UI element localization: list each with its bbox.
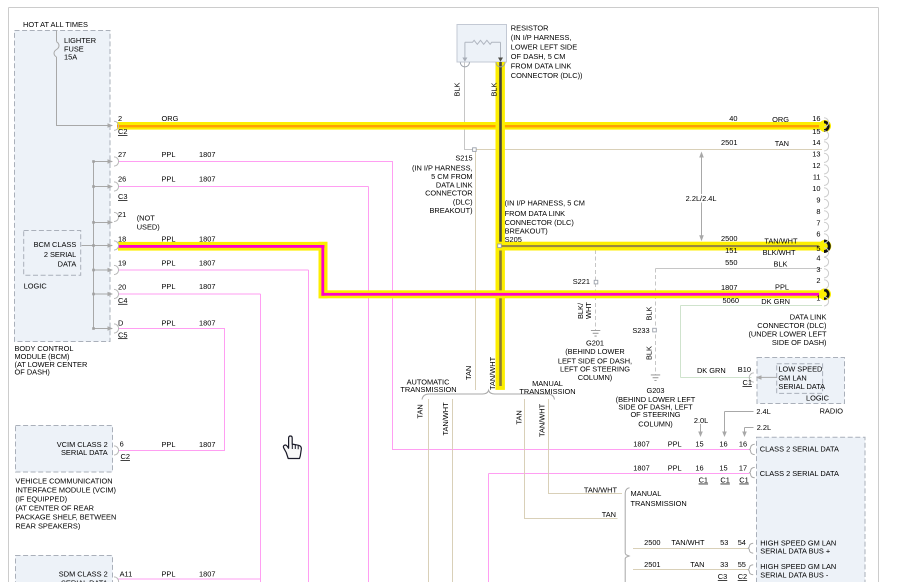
svg-text:PPL: PPL [162,570,176,579]
svg-text:54: 54 [738,538,746,547]
svg-text:1807: 1807 [199,318,215,327]
svg-text:D: D [118,318,123,327]
svg-text:FROM DATA LINK: FROM DATA LINK [505,209,566,218]
svg-text:20: 20 [118,283,126,292]
svg-text:1807: 1807 [199,259,215,268]
svg-text:16: 16 [719,439,727,448]
svg-text:(IF EQUIPPED): (IF EQUIPPED) [15,494,67,503]
svg-text:BLK: BLK [645,306,654,320]
svg-text:PPL: PPL [162,282,176,291]
svg-text:BLK: BLK [645,346,654,360]
svg-text:2500: 2500 [644,538,660,547]
svg-text:SERIAL DATA BUS +: SERIAL DATA BUS + [760,547,830,556]
svg-text:15A: 15A [64,52,77,61]
svg-text:1807: 1807 [199,234,215,243]
svg-text:PPL: PPL [162,174,176,183]
svg-text:33: 33 [720,560,728,569]
svg-text:TAN: TAN [775,139,789,148]
svg-text:12: 12 [812,161,820,170]
svg-text:5060: 5060 [723,296,739,305]
svg-text:2500: 2500 [721,234,737,243]
svg-text:(AT CENTER OF REAR: (AT CENTER OF REAR [15,503,94,512]
svg-text:SERIAL DATA BUS -: SERIAL DATA BUS - [760,570,829,579]
svg-text:(BEHIND LOWER: (BEHIND LOWER [565,347,625,356]
svg-text:COLUMN): COLUMN) [638,420,673,429]
svg-text:1807: 1807 [199,150,215,159]
svg-text:2.2L/2.4L: 2.2L/2.4L [686,194,717,203]
svg-text:C4: C4 [118,296,127,305]
svg-text:SIDE OF DASH): SIDE OF DASH) [772,338,827,347]
svg-text:1: 1 [816,294,820,303]
svg-text:2501: 2501 [644,560,660,569]
svg-text:(IN I/P HARNESS, 5 CM: (IN I/P HARNESS, 5 CM [505,199,585,208]
svg-text:RESISTOR: RESISTOR [511,23,549,32]
svg-text:TAN: TAN [416,404,425,418]
svg-text:PPL: PPL [162,234,176,243]
svg-text:DK GRN: DK GRN [761,297,790,306]
svg-text:1807: 1807 [199,282,215,291]
svg-text:TRANSMISSION: TRANSMISSION [631,499,687,508]
svg-text:17: 17 [739,463,747,472]
svg-text:PPL: PPL [668,439,682,448]
svg-text:7: 7 [816,219,820,228]
svg-text:15: 15 [695,439,703,448]
svg-text:S215: S215 [455,154,472,163]
svg-text:8: 8 [816,207,820,216]
svg-text:10: 10 [812,184,820,193]
svg-text:26: 26 [118,174,126,183]
svg-text:40: 40 [729,114,737,123]
svg-text:B10: B10 [738,365,751,374]
svg-text:SERIAL DATA: SERIAL DATA [61,448,108,457]
svg-text:VEHICLE COMMUNICATION: VEHICLE COMMUNICATION [15,476,112,485]
svg-text:BCM CLASS: BCM CLASS [34,240,77,249]
svg-text:COLUMN): COLUMN) [578,373,613,382]
svg-text:1807: 1807 [721,283,737,292]
svg-text:OF DASH, 5 CM: OF DASH, 5 CM [511,52,566,61]
svg-text:9: 9 [816,196,820,205]
svg-text:1807: 1807 [633,439,649,448]
svg-text:C1: C1 [699,476,708,485]
svg-text:TAN/WHT: TAN/WHT [538,403,547,437]
svg-text:CONNECTOR: CONNECTOR [425,189,473,198]
svg-text:53: 53 [720,538,728,547]
svg-text:TAN: TAN [602,510,616,519]
svg-text:CLASS 2 SERIAL DATA: CLASS 2 SERIAL DATA [760,445,839,454]
svg-text:C1: C1 [743,378,752,387]
svg-text:BLK: BLK [774,259,788,268]
svg-text:TAN/WHT: TAN/WHT [671,538,705,547]
svg-text:16: 16 [739,439,747,448]
svg-text:19: 19 [118,259,126,268]
svg-text:2.2L: 2.2L [757,423,771,432]
svg-text:TRANSMISSION: TRANSMISSION [519,387,575,396]
svg-text:2.0L: 2.0L [694,416,708,425]
svg-text:2 SERIAL: 2 SERIAL [44,250,76,259]
svg-text:ORG: ORG [162,114,179,123]
svg-text:C1: C1 [739,476,748,485]
svg-text:C2: C2 [738,572,747,581]
svg-text:PPL: PPL [162,259,176,268]
svg-text:BLK: BLK [453,82,462,96]
svg-text:1807: 1807 [199,440,215,449]
svg-text:4: 4 [816,254,820,263]
svg-text:TAN: TAN [515,410,524,424]
svg-text:REAR SPEAKERS): REAR SPEAKERS) [15,521,80,530]
svg-text:21: 21 [118,210,126,219]
svg-text:PPL: PPL [162,318,176,327]
svg-text:INTERFACE MODULE (VCIM): INTERFACE MODULE (VCIM) [15,485,116,494]
svg-text:ORG: ORG [772,115,789,124]
svg-text:S233: S233 [632,326,649,335]
svg-text:RADIO: RADIO [820,406,844,415]
svg-text:PPL: PPL [162,440,176,449]
svg-text:MANUAL: MANUAL [631,489,662,498]
svg-text:1807: 1807 [199,174,215,183]
svg-text:LOWER LEFT SIDE: LOWER LEFT SIDE [511,42,577,51]
svg-text:G203: G203 [646,386,664,395]
svg-text:TAN: TAN [464,366,473,380]
svg-text:S205: S205 [505,235,522,244]
svg-text:3: 3 [816,265,820,274]
svg-text:PPL: PPL [775,283,789,292]
svg-text:PPL: PPL [668,463,682,472]
svg-text:C3: C3 [718,572,727,581]
svg-text:CLASS 2 SERIAL DATA: CLASS 2 SERIAL DATA [760,469,839,478]
svg-text:2: 2 [816,276,820,285]
svg-text:HOT AT ALL TIMES: HOT AT ALL TIMES [23,20,88,29]
svg-text:55: 55 [738,560,746,569]
svg-text:C1: C1 [720,476,729,485]
svg-text:18: 18 [118,234,126,243]
svg-text:15: 15 [812,127,820,136]
svg-text:6: 6 [816,230,820,239]
svg-text:A11: A11 [120,570,133,579]
svg-text:OF STEERING: OF STEERING [630,410,680,419]
svg-text:(NOT: (NOT [137,214,156,223]
svg-text:14: 14 [812,138,820,147]
svg-text:16: 16 [812,114,820,123]
svg-text:C2: C2 [121,452,130,461]
svg-text:S221: S221 [573,277,590,286]
svg-text:13: 13 [812,150,820,159]
svg-text:USED): USED) [137,223,160,232]
svg-text:2.4L: 2.4L [756,407,770,416]
svg-text:BLK: BLK [490,82,499,96]
svg-text:DATA: DATA [58,260,77,269]
svg-text:SERIAL DATA: SERIAL DATA [61,579,108,582]
svg-text:LOGIC: LOGIC [24,281,48,290]
svg-text:TAN/WHT: TAN/WHT [488,356,497,390]
svg-text:BREAKOUT): BREAKOUT) [429,206,472,215]
svg-text:TAN: TAN [690,560,704,569]
svg-text:2501: 2501 [721,138,737,147]
svg-text:BLK/WHT: BLK/WHT [763,248,796,257]
svg-text:16: 16 [695,463,703,472]
svg-text:15: 15 [719,463,727,472]
svg-text:CONNECTOR (DLC)): CONNECTOR (DLC)) [511,71,583,80]
svg-text:LOGIC: LOGIC [806,394,830,403]
svg-text:1807: 1807 [199,570,215,579]
svg-text:C2: C2 [118,127,127,136]
svg-text:LOW SPEED: LOW SPEED [778,365,822,374]
svg-text:OF DASH): OF DASH) [15,368,50,377]
svg-text:SERIAL DATA: SERIAL DATA [778,382,825,391]
svg-text:TRANSMISSION: TRANSMISSION [400,385,456,394]
svg-text:TAN/WHT: TAN/WHT [441,402,450,436]
svg-text:PPL: PPL [162,150,176,159]
svg-text:WHT: WHT [584,302,593,319]
svg-text:C3: C3 [118,192,127,201]
svg-text:(IN I/P HARNESS,: (IN I/P HARNESS, [511,33,572,42]
svg-text:27: 27 [118,150,126,159]
svg-text:6: 6 [120,439,124,448]
svg-text:5: 5 [816,244,820,253]
svg-text:151: 151 [725,246,737,255]
svg-text:2: 2 [118,114,122,123]
svg-text:TAN/WHT: TAN/WHT [584,485,618,494]
svg-text:550: 550 [725,258,737,267]
svg-text:FROM DATA LINK: FROM DATA LINK [511,61,572,70]
svg-text:1807: 1807 [633,463,649,472]
svg-text:DK GRN: DK GRN [697,366,726,375]
svg-text:PACKAGE SHELF, BETWEEN: PACKAGE SHELF, BETWEEN [15,512,116,521]
svg-text:SDM CLASS 2: SDM CLASS 2 [59,570,108,579]
svg-text:TAN/WHT: TAN/WHT [764,237,798,246]
svg-text:C5: C5 [118,330,127,339]
svg-text:11: 11 [813,173,821,182]
